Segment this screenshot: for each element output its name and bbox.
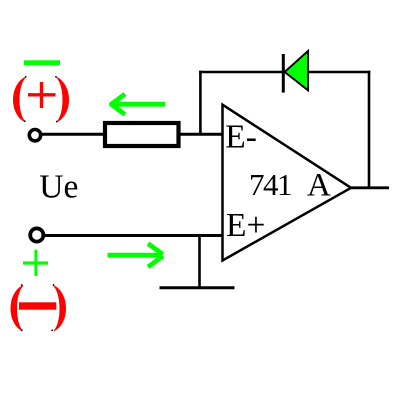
- red left parenthesis of (+): [13, 77, 25, 121]
- black specks at (-) paren tips: [21, 284, 54, 331]
- wire: non-inverting input from bottom terminal to op-amp E+: [40, 234, 223, 237]
- svg-text:E-: E-: [225, 119, 257, 156]
- green arrow pointing left (current direction above resistor): [110, 94, 165, 115]
- red plus sign inside (+): [28, 82, 56, 108]
- ground bar: [160, 286, 235, 289]
- diode D1 cathode bar: [282, 54, 285, 93]
- black specks at (+) paren tips: [24, 76, 58, 122]
- op-amp U1 triangle: [223, 105, 352, 261]
- wire: feedback right vertical segment: [368, 71, 371, 188]
- resistor R (input resistor): [105, 123, 179, 146]
- terminal node: bottom input terminal: [30, 228, 43, 241]
- wire: inverting input from top terminal to op-amp E-: [39, 133, 223, 136]
- svg-text:E+: E+: [226, 207, 265, 244]
- wire: output segment from op-amp apex: [351, 186, 389, 189]
- wire: feedback left vertical segment: [199, 71, 202, 135]
- svg-text:A: A: [307, 168, 331, 204]
- red right parenthesis of (-): [54, 286, 66, 331]
- wire: ground vertical segment: [198, 236, 201, 288]
- svg-text:741: 741: [249, 167, 291, 202]
- green plus sign below bottom terminal: [23, 250, 48, 276]
- green minus sign above top terminal: [24, 60, 60, 65]
- svg-text:Ue: Ue: [39, 169, 78, 206]
- terminal node: top input terminal: [29, 130, 40, 141]
- wire: feedback top horizontal segment to diode: [199, 71, 284, 74]
- red right parenthesis of (+): [57, 77, 69, 121]
- green arrow pointing right (current direction below E+ wire): [108, 244, 163, 268]
- red minus bar inside (-): [19, 302, 56, 309]
- diode D1 green triangle: [285, 51, 309, 91]
- wire: diode to right feedback corner: [307, 71, 370, 74]
- red left parenthesis of (-): [11, 286, 23, 331]
